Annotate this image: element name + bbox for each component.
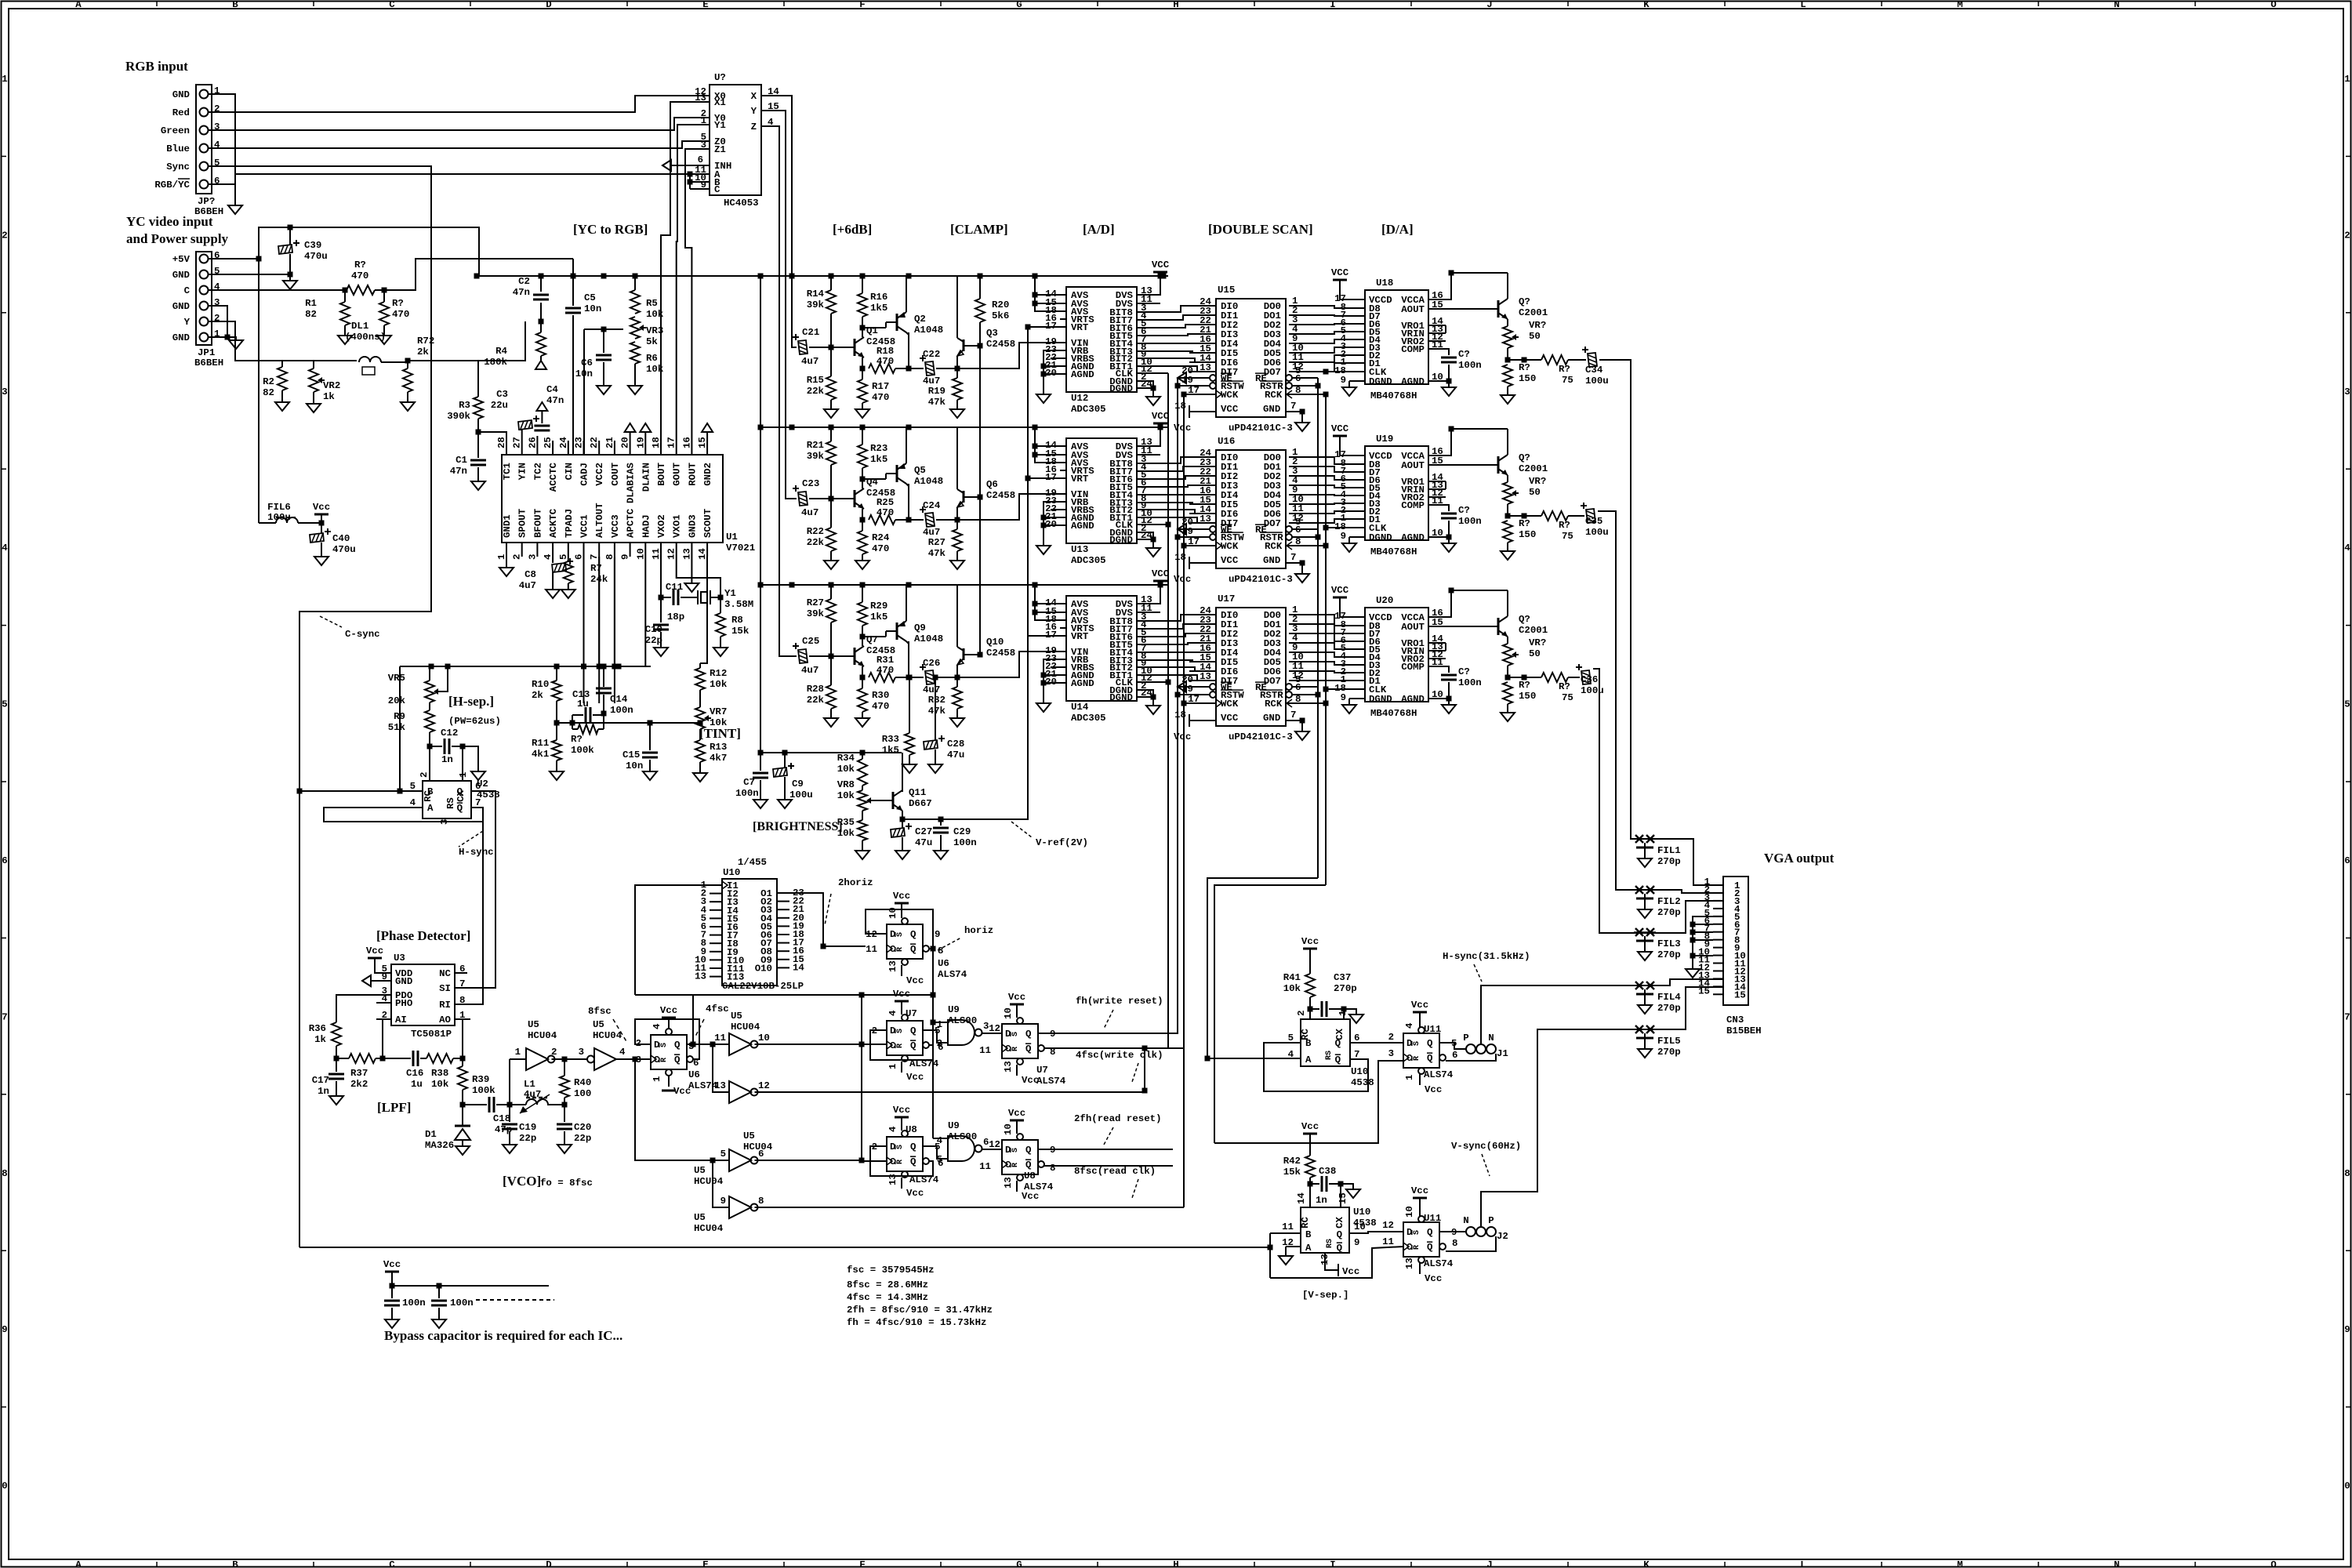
flip-flop U6 ALS74 (div2 4fsc) <box>651 1035 687 1069</box>
svg-text:C25: C25 <box>802 636 819 647</box>
svg-text:U6: U6 <box>938 958 949 969</box>
H-sync branch wires <box>1207 878 1318 1058</box>
transistor Q7 C2458 <box>854 648 856 665</box>
8fsc(read clk) long wire <box>755 1160 862 1161</box>
CN3 ground bus pins 5-10 <box>1693 916 1723 969</box>
wire Y input line <box>212 321 278 361</box>
svg-text:C36: C36 <box>1581 674 1598 685</box>
wire VRB/AGND ground <box>1044 502 1060 546</box>
capacitor C24 4u7 <box>925 513 935 527</box>
svg-text:N: N <box>2114 1559 2119 1568</box>
svg-text:15: 15 <box>697 437 708 448</box>
svg-text:1: 1 <box>2 74 7 85</box>
svg-text:VRT: VRT <box>1071 474 1089 485</box>
svg-text:12: 12 <box>1292 361 1304 372</box>
svg-text:U10: U10 <box>1351 1066 1368 1077</box>
bottom loop <box>1270 1247 1403 1278</box>
svg-text:JP?: JP? <box>198 196 215 207</box>
capacitor C3x 100u <box>1568 515 1584 517</box>
svg-text:ACCTC: ACCTC <box>548 462 559 492</box>
svg-text:8fsc(read clk): 8fsc(read clk) <box>1074 1166 1156 1177</box>
svg-text:[LPF]: [LPF] <box>377 1100 411 1115</box>
svg-text:GND2: GND2 <box>702 463 713 486</box>
svg-text:DGND: DGND <box>1109 692 1133 703</box>
svg-text:R11: R11 <box>532 738 549 749</box>
svg-text:uPD42101C-3: uPD42101C-3 <box>1229 574 1293 585</box>
svg-text:FIL1: FIL1 <box>1657 845 1681 856</box>
svg-text:22k: 22k <box>807 386 825 397</box>
R8 15k <box>720 597 721 613</box>
svg-text:12: 12 <box>758 1080 770 1091</box>
svg-text:22p: 22p <box>574 1133 591 1144</box>
svg-text:8: 8 <box>1050 1163 1055 1174</box>
svg-text:R33: R33 <box>882 734 899 745</box>
svg-text:C4: C4 <box>546 384 558 395</box>
svg-text:C29: C29 <box>953 826 971 837</box>
svg-text:4: 4 <box>543 554 554 560</box>
svg-text:R7: R7 <box>590 563 602 574</box>
resistor R2 82 <box>281 361 283 367</box>
svg-text:270p: 270p <box>1657 1003 1681 1014</box>
svg-text:E: E <box>702 0 708 10</box>
svg-text:Q: Q <box>674 1054 681 1065</box>
svg-text:VCC: VCC <box>1331 423 1349 434</box>
svg-text:1u: 1u <box>411 1079 423 1090</box>
resistor R16 1k5 <box>862 276 863 293</box>
svg-text:R?: R? <box>1519 680 1530 691</box>
capacitor C9 100u <box>784 753 786 768</box>
svg-text:13: 13 <box>695 93 706 103</box>
svg-text:1u: 1u <box>577 699 589 710</box>
svg-text:39k: 39k <box>807 608 825 619</box>
svg-text:RS: RS <box>445 797 456 809</box>
resistor R4 180k <box>540 321 542 332</box>
svg-text:4u7: 4u7 <box>923 684 940 695</box>
svg-text:Q?: Q? <box>1519 614 1530 625</box>
svg-text:R?: R? <box>571 734 583 745</box>
IC U16 uPD42101C-3 <box>1216 450 1286 568</box>
svg-text:R4: R4 <box>495 346 507 357</box>
svg-text:C14: C14 <box>610 694 628 705</box>
U2 wiring <box>297 789 303 794</box>
svg-text:10n: 10n <box>584 303 601 314</box>
svg-text:Q: Q <box>910 944 916 955</box>
wire Red to X0 <box>212 96 710 112</box>
delay line DL1 (400ns) <box>359 357 381 362</box>
svg-text:[YC to RGB]: [YC to RGB] <box>573 222 648 237</box>
svg-text:1: 1 <box>515 1047 521 1058</box>
svg-text:13: 13 <box>1200 362 1211 373</box>
svg-text:1n: 1n <box>318 1086 329 1097</box>
capacitor C15 10n <box>649 723 651 750</box>
svg-text:C-sync: C-sync <box>345 629 380 640</box>
svg-text:9: 9 <box>2 1324 7 1335</box>
svg-text:DGND: DGND <box>1109 383 1133 394</box>
capacitor C14 100n <box>603 666 604 687</box>
svg-text:FIL4: FIL4 <box>1657 992 1681 1003</box>
svg-text:R34: R34 <box>837 753 855 764</box>
HC4053 outputs X Y Z to channels <box>761 96 797 347</box>
R3 390k and C1 47n on TC1 <box>477 361 479 397</box>
svg-text:20k: 20k <box>388 695 406 706</box>
svg-text:RCK: RCK <box>1265 390 1283 401</box>
U11 clock from H-sync <box>1214 1061 1403 1143</box>
C4 47n on TC2 <box>536 436 538 441</box>
svg-text:U7: U7 <box>1036 1065 1048 1076</box>
capacitor C13 1u parallel R? 100k <box>572 714 583 716</box>
svg-text:C35: C35 <box>1585 516 1602 527</box>
capacitor C22 4u7 <box>925 361 935 376</box>
ferrite bead FIL6 100u <box>258 227 260 521</box>
transistor Q3 C2458 clamp (mirrored) <box>956 276 958 338</box>
GND pin 7 <box>1286 562 1302 564</box>
potentiometer VR8 10k <box>858 790 867 811</box>
svg-text:22p: 22p <box>645 635 662 646</box>
svg-text:13: 13 <box>695 971 706 982</box>
svg-text:7: 7 <box>589 554 600 560</box>
svg-text:H-sync: H-sync <box>459 847 494 858</box>
capacitor C20 22p <box>564 1105 565 1122</box>
svg-text:13: 13 <box>681 548 692 560</box>
svg-text:R2: R2 <box>263 376 274 387</box>
svg-text:Q: Q <box>1335 1054 1341 1065</box>
svg-text:11: 11 <box>979 1161 991 1172</box>
R11 4k1 <box>556 723 557 740</box>
svg-text:Q: Q <box>1025 1029 1032 1040</box>
svg-text:U15: U15 <box>1218 285 1235 296</box>
svg-text:C2001: C2001 <box>1519 463 1548 474</box>
svg-text:Vcc: Vcc <box>1301 1121 1319 1132</box>
svg-text:150: 150 <box>1519 373 1536 384</box>
svg-text:Vcc: Vcc <box>313 502 330 513</box>
svg-text:2k: 2k <box>417 347 429 358</box>
svg-text:DGND: DGND <box>1369 376 1392 387</box>
wire Q2 collector <box>906 641 909 644</box>
svg-text:AGND: AGND <box>1071 369 1094 380</box>
svg-text:13: 13 <box>1003 1061 1014 1073</box>
svg-text:C2458: C2458 <box>986 339 1015 350</box>
svg-text:17: 17 <box>1188 536 1200 547</box>
R39 100k <box>458 1066 467 1090</box>
svg-text:APCTC: APCTC <box>626 508 637 538</box>
resistor R15 22k <box>830 347 832 376</box>
svg-text:Vcc: Vcc <box>383 1259 401 1270</box>
svg-text:U8: U8 <box>1024 1171 1036 1181</box>
svg-text:4u7: 4u7 <box>524 1089 541 1100</box>
svg-text:CN3: CN3 <box>1726 1014 1744 1025</box>
svg-text:C24: C24 <box>923 500 941 511</box>
svg-text:R72: R72 <box>417 336 434 347</box>
svg-text:470: 470 <box>392 309 409 320</box>
svg-text:R22: R22 <box>807 526 824 537</box>
transistor Q5 A1048 <box>896 465 898 482</box>
svg-text:L: L <box>1800 1559 1806 1568</box>
svg-text:47k: 47k <box>928 706 946 717</box>
svg-text:6: 6 <box>1354 1033 1359 1044</box>
svg-text:COMP: COMP <box>1401 662 1425 673</box>
svg-text:N: N <box>1463 1215 1468 1226</box>
svg-text:WCK: WCK <box>1221 699 1239 710</box>
svg-text:C20: C20 <box>574 1122 591 1133</box>
svg-text:270p: 270p <box>1334 983 1357 994</box>
svg-text:4: 4 <box>887 1010 898 1016</box>
wire VIN <box>957 652 1060 677</box>
svg-text:7: 7 <box>1290 401 1296 412</box>
svg-text:C2458: C2458 <box>986 490 1015 501</box>
svg-text:FIL5: FIL5 <box>1657 1036 1681 1047</box>
svg-text:FIL2: FIL2 <box>1657 896 1681 907</box>
svg-text:C5: C5 <box>584 292 596 303</box>
svg-text:Q: Q <box>1025 1160 1032 1171</box>
Vcc main rail <box>477 275 1168 277</box>
svg-text:AOUT: AOUT <box>1401 304 1425 315</box>
svg-text:P: P <box>1488 1215 1494 1226</box>
AO wire to R39 <box>455 1019 463 1058</box>
svg-text:39k: 39k <box>807 299 825 310</box>
svg-text:Vcc: Vcc <box>660 1005 677 1016</box>
svg-text:VR7: VR7 <box>710 706 727 717</box>
wire Green to Y0 <box>212 118 710 130</box>
U10 Q to U11 D <box>1350 1042 1403 1044</box>
svg-text:28: 28 <box>496 437 507 448</box>
svg-text:Y1: Y1 <box>714 120 726 131</box>
svg-text:fh(write reset): fh(write reset) <box>1076 996 1163 1007</box>
vertical 1190 to 4fsc bus <box>932 949 934 995</box>
svg-text:B: B <box>1305 1229 1312 1240</box>
svg-text:50: 50 <box>1529 648 1541 659</box>
wire VRT to V-ref bus <box>1028 477 1060 479</box>
svg-text:SI: SI <box>439 983 451 994</box>
svg-text:[CLAMP]: [CLAMP] <box>950 222 1008 237</box>
svg-text:Q: Q <box>457 803 463 814</box>
wire VIN <box>957 494 1060 520</box>
svg-text:R6: R6 <box>646 353 658 364</box>
svg-text:VCC3: VCC3 <box>610 514 621 538</box>
svg-text:Y: Y <box>751 106 757 117</box>
flip-flop U11 ALS74 (H) <box>1403 1033 1439 1068</box>
svg-text:470: 470 <box>872 543 889 554</box>
svg-text:11: 11 <box>651 548 662 560</box>
svg-text:100u: 100u <box>1581 685 1604 696</box>
svg-text:22: 22 <box>589 437 600 448</box>
U8 D loop <box>870 1146 933 1176</box>
svg-text:(400ns): (400ns) <box>345 332 386 343</box>
AI wire <box>383 1019 391 1058</box>
potentiometer VR? 50 <box>1507 637 1508 644</box>
8fsc(read clk) wire <box>1044 1165 1173 1167</box>
svg-text:AGND: AGND <box>1071 678 1094 689</box>
U10 Q out <box>1349 1232 1403 1233</box>
svg-text:WCK: WCK <box>1221 390 1239 401</box>
capacitor C2 47n <box>540 276 542 292</box>
ground <box>228 205 242 214</box>
svg-text:L: L <box>1800 0 1806 10</box>
capacitor C21 4u7 (coupling) <box>798 340 808 354</box>
svg-text:C34: C34 <box>1585 365 1603 376</box>
svg-text:R: R <box>896 1160 905 1164</box>
flip-flop U11 ALS74 (V) <box>1403 1222 1439 1257</box>
svg-text:C: C <box>714 184 720 195</box>
crystal Y1 3.58M circuit <box>660 557 662 597</box>
svg-text:RC: RC <box>1300 1216 1311 1228</box>
svg-text:11: 11 <box>866 944 877 955</box>
capacitor C18 47p <box>463 1104 487 1105</box>
GND arrow U3 <box>362 975 371 986</box>
clamp base bus <box>979 322 981 655</box>
resistor R? 150 <box>1507 504 1508 516</box>
svg-text:2k: 2k <box>532 690 543 701</box>
svg-text:R?: R? <box>354 260 366 270</box>
svg-text:M: M <box>1957 1559 1962 1568</box>
transistor Q10 C2458 clamp (mirrored) <box>956 585 958 647</box>
svg-text:C21: C21 <box>802 327 819 338</box>
ADC BIT bus to FIFO DI <box>1137 306 1216 312</box>
ferrite bead FIL3 270p <box>1635 928 1643 936</box>
svg-text:Green: Green <box>161 125 190 136</box>
svg-text:2fh(read reset): 2fh(read reset) <box>1074 1113 1162 1124</box>
svg-text:3.58M: 3.58M <box>724 599 753 610</box>
clock bus 1099 <box>862 995 887 1161</box>
svg-text:4u7: 4u7 <box>519 580 536 591</box>
resistor R9 51k <box>429 702 430 710</box>
ADC BIT bus to FIFO DI <box>1137 615 1216 621</box>
svg-text:U3: U3 <box>394 953 405 964</box>
svg-text:[D/A]: [D/A] <box>1381 222 1414 237</box>
svg-text:VCC: VCC <box>1152 260 1170 270</box>
capacitor C? 100n <box>1441 674 1457 677</box>
U6 feedback loop <box>635 1019 699 1059</box>
wire AGND ground <box>1428 536 1449 538</box>
svg-text:13: 13 <box>1404 1258 1415 1269</box>
svg-text:6: 6 <box>1295 524 1301 535</box>
capacitor C12 1n <box>429 732 430 746</box>
svg-text:12: 12 <box>666 548 677 560</box>
C10 22p <box>660 597 662 622</box>
IC U1 V7021 <box>502 455 723 543</box>
svg-text:C27: C27 <box>915 826 932 837</box>
svg-text:82: 82 <box>263 387 274 398</box>
svg-text:HCU04: HCU04 <box>694 1176 724 1187</box>
svg-text:13: 13 <box>714 1080 726 1091</box>
wire DGND to ground <box>1137 381 1153 388</box>
svg-text:+5V: +5V <box>172 254 191 265</box>
BOUT GOUT ROUT to HC4053 <box>661 102 710 441</box>
node row 922 <box>557 722 700 724</box>
svg-text:GND: GND <box>172 270 190 281</box>
wire HADJ to node row <box>644 557 646 666</box>
svg-text:18: 18 <box>651 437 662 448</box>
VCCA wire to rail <box>1443 273 1498 299</box>
svg-text:U5: U5 <box>743 1131 755 1142</box>
svg-text:1n: 1n <box>441 754 453 765</box>
flip-flop U6 ALS74 (horiz) <box>887 924 923 959</box>
svg-text:20: 20 <box>620 437 631 448</box>
YIN wire with C3 22u <box>521 430 523 441</box>
svg-text:DGND: DGND <box>1109 535 1133 546</box>
svg-text:MB40768H: MB40768H <box>1370 708 1417 719</box>
svg-text:100n: 100n <box>1458 516 1482 527</box>
svg-text:100u: 100u <box>267 512 291 523</box>
svg-text:U5: U5 <box>528 1019 539 1030</box>
svg-text:4u7: 4u7 <box>801 665 818 676</box>
wire DAC3 output to VGA <box>1593 669 1723 933</box>
svg-text:3: 3 <box>701 140 706 151</box>
svg-text:U13: U13 <box>1071 544 1088 555</box>
svg-text:Blue: Blue <box>166 143 190 154</box>
svg-text:uPD42101C-3: uPD42101C-3 <box>1229 731 1293 742</box>
svg-text:Vcc: Vcc <box>906 975 924 986</box>
svg-text:R32: R32 <box>928 695 946 706</box>
IC U12 ADC305 <box>1066 287 1137 392</box>
svg-text:U10: U10 <box>1353 1207 1370 1218</box>
svg-text:HCU04: HCU04 <box>731 1022 760 1033</box>
wire Blue to Z0 <box>212 141 710 148</box>
wire C input line <box>212 289 345 291</box>
svg-text:X1: X1 <box>714 97 726 108</box>
resistor R40 100 <box>564 1059 565 1076</box>
connector JP? B6BEH (RGB input) <box>196 85 212 194</box>
wire VRB/AGND ground <box>1044 350 1060 394</box>
svg-text:10k: 10k <box>1283 983 1301 994</box>
potentiometer VR? 50 <box>1507 475 1508 482</box>
svg-text:U6: U6 <box>688 1069 700 1080</box>
svg-text:1: 1 <box>496 554 507 560</box>
svg-text:BOUT: BOUT <box>656 462 667 485</box>
svg-text:VR2: VR2 <box>323 380 340 391</box>
fh(write reset) wire <box>1038 1033 1178 1034</box>
svg-text:VCC: VCC <box>1221 713 1239 724</box>
svg-text:G: G <box>1016 0 1022 10</box>
svg-text:DGND: DGND <box>1369 694 1392 705</box>
svg-text:K: K <box>1643 0 1650 10</box>
svg-text:fo = 8fsc: fo = 8fsc <box>540 1178 593 1189</box>
resistor R18 470 horizontal <box>869 364 895 373</box>
svg-text:J: J <box>1486 1559 1492 1568</box>
VRO1-VRIN loop <box>1445 325 1446 333</box>
IC U18 MB40768H <box>1365 290 1428 384</box>
svg-text:14: 14 <box>793 962 804 973</box>
svg-text:1: 1 <box>652 1076 662 1082</box>
svg-text:VR5: VR5 <box>388 673 405 684</box>
svg-text:2: 2 <box>2344 230 2350 241</box>
ADC BIT bus to FIFO DI <box>1137 457 1216 463</box>
svg-text:17: 17 <box>1188 385 1200 396</box>
svg-text:39k: 39k <box>807 451 825 462</box>
svg-text:H: H <box>1173 0 1178 10</box>
svg-text:Vcc: Vcc <box>1411 1185 1428 1196</box>
svg-text:ALS74: ALS74 <box>1424 1258 1454 1269</box>
transistor Q? C2001 <box>1497 456 1500 474</box>
svg-text:100n: 100n <box>735 788 759 799</box>
svg-text:26: 26 <box>527 437 538 448</box>
svg-text:12: 12 <box>989 1023 1000 1034</box>
vertical from C-sync <box>299 791 300 1172</box>
svg-text:15: 15 <box>1432 299 1443 310</box>
capacitor C26 4u7 <box>925 670 935 684</box>
svg-text:R39: R39 <box>472 1074 489 1085</box>
svg-text:8: 8 <box>2 1168 7 1179</box>
svg-text:COUT: COUT <box>610 462 621 485</box>
svg-text:JP1: JP1 <box>198 347 215 358</box>
svg-text:4: 4 <box>410 797 416 808</box>
svg-text:12: 12 <box>989 1139 1000 1150</box>
svg-text:C15: C15 <box>622 750 640 760</box>
svg-text:7: 7 <box>2 1011 7 1022</box>
svg-text:AGND: AGND <box>1401 532 1425 543</box>
wire Sync to C-sync <box>212 166 431 791</box>
U5 HCU04 inverter D <box>729 1081 751 1103</box>
svg-text:WCK: WCK <box>1221 541 1239 552</box>
